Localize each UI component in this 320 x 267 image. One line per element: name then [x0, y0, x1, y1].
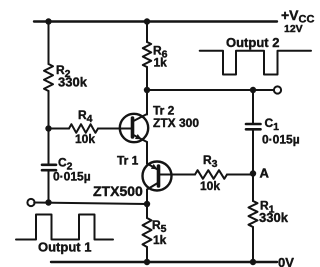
svg-text:1k: 1k [153, 233, 167, 247]
wire: R4 to Tr2 base [98, 128, 133, 130]
wire: output1 terminal to Tr1 collector node [34, 203, 147, 205]
resistor R5 [143, 218, 152, 247]
node: 0V rail / R1 [250, 259, 256, 265]
svg-text:330k: 330k [259, 210, 289, 225]
svg-text:1k: 1k [154, 56, 168, 70]
wire: rail down to R6 [146, 22, 148, 43]
terminal: output 2 [274, 86, 281, 93]
wire: node down to Tr2 collector [146, 90, 148, 115]
svg-text:ZTX500: ZTX500 [93, 183, 143, 199]
resistor R6 [143, 42, 151, 67]
node: rail to R6 branch [144, 18, 150, 24]
wire: output 2 line [147, 89, 274, 91]
svg-text:A: A [260, 166, 270, 181]
wire: R5 down to 0V rail [146, 247, 148, 262]
node: output1 / C2 junction [45, 199, 51, 205]
resistor R4 [69, 124, 98, 133]
wire: Tr1 collector down to node [146, 190, 148, 205]
node: Tr1 collector / R5 junction [144, 201, 150, 207]
node A [250, 170, 256, 176]
svg-text:330k: 330k [58, 75, 88, 90]
capacitor C2 [42, 165, 56, 170]
svg-text:Tr 1: Tr 1 [117, 154, 139, 168]
resistor R1 [249, 201, 258, 227]
capacitor C1 [246, 124, 261, 129]
transistor Tr2 ZTX300 (npn) [120, 114, 148, 142]
wire: C1 branch down from output2 line [252, 90, 254, 123]
svg-text:12V: 12V [284, 23, 303, 35]
wire: node A down to R1 [252, 174, 254, 201]
wire: R5 node down to R5 [146, 204, 148, 218]
terminal: output 1 [27, 199, 34, 206]
wire: C2 down to output1 node [48, 170, 50, 202]
svg-text:10k: 10k [200, 179, 220, 193]
wire: R6 to collector node [146, 67, 148, 90]
wire: R1 down to 0V rail [252, 227, 254, 262]
wire: R3 to node A [227, 174, 253, 176]
svg-text:0·015µ: 0·015µ [53, 170, 91, 184]
svg-text:Output 1: Output 1 [38, 240, 91, 255]
wire: +Vcc top supply rail [34, 20, 277, 22]
wire: Tr2 emitter to Tr1 emitter [146, 142, 148, 164]
waveform: output 2 [200, 51, 311, 75]
svg-text:ZTX 300: ZTX 300 [153, 116, 199, 130]
wire: Tr1 base to R3 [172, 174, 196, 176]
svg-text:10k: 10k [75, 132, 95, 146]
waveform: output 1 [16, 215, 113, 240]
resistor R2 [44, 64, 53, 91]
wire: rail down to R2 [48, 22, 50, 65]
wire: C1 down to node A [252, 129, 254, 174]
node: rail to R2 branch [45, 18, 51, 24]
node: R4 base branch junction [45, 125, 51, 131]
node: Tr2 collector / output2 junction [144, 87, 150, 93]
node: 0V rail / R5 [144, 259, 150, 265]
node: C1 branch junction [250, 87, 256, 93]
wire: R2 down to C2 [48, 91, 50, 164]
resistor R3 [195, 170, 227, 179]
transistor Tr1 ZTX500 (pnp) [143, 162, 172, 191]
svg-text:Output 2: Output 2 [226, 35, 279, 50]
wire: junction to R4 [49, 128, 70, 130]
svg-text:0·015µ: 0·015µ [262, 133, 300, 147]
wire: 0V bottom rail [51, 261, 277, 263]
svg-text:0V: 0V [278, 255, 294, 267]
